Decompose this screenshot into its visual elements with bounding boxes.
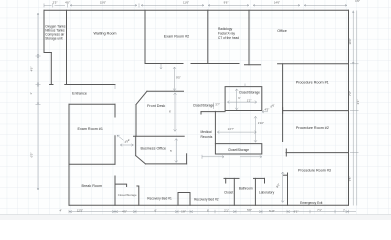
svg-text:Medical: Medical: [201, 130, 212, 134]
wall: waiting room south: [67, 84, 116, 86]
svg-text:Procedure Room #2: Procedure Room #2: [296, 126, 329, 130]
svg-text:Exam Room #2: Exam Room #2: [164, 34, 189, 38]
svg-text:Closet/Storage: Closet/Storage: [239, 90, 260, 94]
wall: closet/storage room 1 south: [201, 111, 225, 113]
svg-text:9'5": 9'5": [176, 76, 181, 80]
svg-text:Break Room: Break Room: [82, 184, 103, 188]
dimension line: top: [44, 4, 347, 6]
svg-text:Storage unit: Storage unit: [45, 37, 62, 41]
svg-text:Facial X-ray: Facial X-ray: [218, 32, 235, 36]
wall: closet/storage room 1 jamb: [200, 112, 202, 114]
wall: exam room 1 north: [69, 103, 115, 105]
wall: tank closet door feet: [50, 84, 69, 86]
wall: left exterior lower: [68, 104, 70, 205]
dimension: central box top tick: [244, 84, 246, 87]
wall: closet/bathroom divider: [233, 178, 235, 205]
dimension line: right: [350, 11, 359, 206]
wall: business office south: [146, 163, 187, 165]
wall: entry recess top: [178, 192, 190, 194]
svg-text:1'10": 1'10": [258, 121, 264, 125]
wall: left exterior upper: [43, 10, 45, 52]
svg-text:Recovery Bed #2: Recovery Bed #2: [194, 198, 219, 202]
dimension: 5' vertical arrow business office: [175, 139, 178, 163]
wall: entry recess left: [177, 193, 179, 206]
wall: entry recess right: [189, 193, 191, 206]
svg-text:Records: Records: [201, 135, 213, 139]
wall: closet west tick: [225, 178, 227, 183]
scan edge line bottom: [0, 215, 391, 220]
dimension: exam1 door swing arrow: [117, 135, 123, 140]
wall: procedure room 3 west: [287, 173, 289, 205]
svg-text:Procedure Room #1: Procedure Room #1: [296, 81, 329, 85]
wall: left exterior mid: [50, 53, 52, 85]
svg-text:Closet: Closet: [224, 191, 233, 195]
svg-text:Recovery Bed #1: Recovery Bed #1: [147, 197, 172, 201]
svg-text:2'5": 2'5": [53, 1, 58, 5]
dimension: 4'5" double arrow: [120, 144, 133, 147]
svg-text:14'6": 14'6": [348, 38, 352, 44]
svg-text:Procedure Room #3: Procedure Room #3: [298, 168, 331, 172]
wall: corridor north segment c: [278, 63, 349, 65]
wall: top exterior: [44, 9, 349, 11]
wall: exam2/radiology divider: [207, 10, 209, 63]
svg-text:Closet/Storage: Closet/Storage: [193, 104, 214, 108]
dimension: exam2 door arrow: [160, 64, 162, 69]
svg-text:4'5": 4'5": [265, 107, 270, 111]
wall: right exterior: [348, 10, 350, 205]
wall: medical records east: [214, 111, 216, 143]
wall: left jog at tank closet: [44, 52, 51, 54]
svg-text:4'6": 4'6": [65, 1, 70, 5]
wall: tank closet right: [66, 10, 68, 84]
svg-text:13'7": 13'7": [228, 127, 234, 131]
wall: proc1/proc2 divider segment b: [282, 108, 284, 114]
dimension: 1'10" vertical arrow: [254, 116, 257, 142]
svg-text:4'6": 4'6": [30, 67, 34, 72]
svg-text:Exam Room #1: Exam Room #1: [77, 127, 102, 131]
svg-text:1'6": 1'6": [355, 0, 360, 3]
svg-text:6'1": 6'1": [294, 209, 299, 213]
svg-text:5'-8": 5'-8": [269, 209, 275, 213]
wall: proc2/proc3 divider: [286, 152, 349, 154]
svg-text:3'7": 3'7": [215, 102, 220, 106]
svg-text:CT of the head: CT of the head: [218, 36, 239, 40]
wall: bottom exterior: [69, 204, 349, 206]
wall: closet north: [224, 177, 239, 179]
svg-text:15'6": 15'6": [100, 1, 106, 5]
svg-text:7'5": 7'5": [348, 177, 352, 182]
svg-text:2'1": 2'1": [224, 208, 229, 212]
svg-text:12'5": 12'5": [77, 208, 83, 212]
svg-text:14'6": 14'6": [274, 1, 280, 5]
svg-text:3'1": 3'1": [356, 100, 360, 105]
dimension: 13'7" horizontal arrow medical records: [217, 131, 256, 134]
dimension: 4'5" tick arrow: [262, 111, 268, 113]
dimension line: bottom: [69, 211, 356, 213]
wall: radiology door jamb: [245, 64, 261, 66]
dimension: 8'2" recovery arrow: [281, 172, 284, 203]
svg-text:Laboratory: Laboratory: [259, 190, 275, 194]
wall: laboratory north tick: [264, 178, 266, 183]
wall: closet/storage box lower: [215, 144, 261, 154]
svg-text:Radiology: Radiology: [218, 27, 233, 31]
wall: exam1/break room divider: [69, 163, 115, 165]
wall: front desk chamfer: [136, 91, 147, 104]
wall: business office chamfer: [136, 156, 146, 164]
wall: exam room 1 east upper: [114, 104, 116, 117]
dimension: under-box arrows: [202, 155, 262, 159]
dimension line: left: [36, 13, 41, 190]
dimension: 3'7" mini arrow: [213, 103, 215, 110]
wall: central closet/storage box: [225, 87, 262, 111]
dimension: 6' vertical arrow front desk: [174, 93, 177, 132]
svg-text:Bathroom: Bathroom: [239, 187, 253, 191]
svg-text:6'5": 6'5": [30, 153, 34, 158]
svg-text:Office: Office: [277, 29, 287, 33]
svg-text:Waiting Room: Waiting Room: [93, 31, 116, 35]
svg-text:4'5": 4'5": [122, 210, 127, 214]
svg-text:5'8": 5'8": [247, 208, 252, 212]
svg-text:Entrance: Entrance: [72, 92, 87, 96]
svg-text:11'6": 11'6": [183, 1, 189, 5]
svg-text:Front Desk: Front Desk: [147, 104, 165, 108]
wall: front desk west: [135, 105, 137, 137]
wall: break room closet east: [137, 186, 139, 205]
dimension: 9'5" vertical arrow: [173, 67, 176, 91]
wall: corridor north segment a: [145, 63, 183, 65]
svg-text:Emergency Exit: Emergency Exit: [300, 201, 322, 205]
wall: business office east: [186, 154, 188, 164]
svg-text:9'6": 9'6": [224, 1, 229, 5]
svg-text:7'2": 7'2": [348, 91, 352, 96]
svg-text:1'2": 1'2": [247, 99, 252, 103]
svg-text:7'1": 7'1": [317, 208, 322, 212]
wall: front desk north: [147, 90, 184, 92]
wall: proc1/proc2 divider segment a: [283, 110, 349, 112]
wall: front desk/business office divider: [134, 135, 185, 137]
svg-text:Business Office: Business Office: [141, 146, 167, 150]
wall: procedure spine west: [282, 64, 284, 142]
wall: bathroom/laboratory divider: [254, 178, 256, 205]
wall: business office west: [135, 136, 137, 155]
wall: exam room 1 east lower: [114, 136, 116, 165]
dimension: waiting room door tick: [114, 85, 116, 90]
wall: laboratory north: [254, 177, 265, 179]
dimension: 6' closet box arrow: [227, 89, 256, 110]
wall: recovery closet west: [114, 176, 116, 205]
wall: proc2/proc3 jamb tick: [285, 149, 287, 156]
wall: proc3 west tick: [284, 174, 288, 176]
svg-text:Closet/Storage: Closet/Storage: [118, 193, 137, 197]
svg-text:1'8": 1'8": [181, 210, 186, 214]
svg-text:Closet/Storage: Closet/Storage: [228, 148, 249, 152]
wall: exam room 2 west: [144, 10, 146, 63]
wall: break room closet north: [115, 184, 127, 186]
wall: corridor north segment b: [191, 63, 239, 65]
wall: radiology/office divider: [248, 10, 250, 64]
